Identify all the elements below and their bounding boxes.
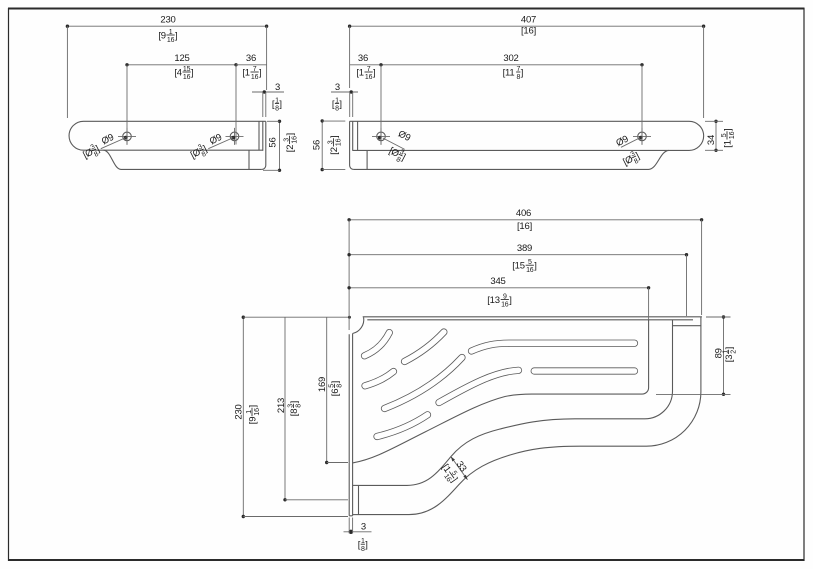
plan view: front tube left end cap xyxy=(358,485,360,514)
svg-text:16: 16 xyxy=(254,408,261,416)
plan view: shelf plate edge xyxy=(353,320,649,463)
svg-text:]: ] xyxy=(330,381,341,383)
left view: dimension 36 xyxy=(236,53,267,81)
right view: rail bar outline xyxy=(350,121,704,150)
plan view: dimension 213 xyxy=(276,317,348,501)
plan view: dimension 3 (plate thickness) xyxy=(344,518,372,554)
svg-text:3: 3 xyxy=(335,82,340,93)
svg-text:]: ] xyxy=(259,67,261,78)
left view: hole1 leader xyxy=(101,138,126,149)
svg-text:230: 230 xyxy=(160,15,175,26)
svg-text:]: ] xyxy=(534,261,536,272)
svg-text:]: ] xyxy=(722,129,733,131)
svg-text:16: 16 xyxy=(526,267,534,274)
svg-text:[1: [1 xyxy=(242,67,250,78)
plan view: slot 3 (long top) xyxy=(472,343,635,351)
plan view: slot 6 (banana C) xyxy=(439,370,519,402)
right view: hole 1 xyxy=(372,128,390,145)
plan view: dimension 230 xyxy=(234,316,349,519)
plan view: dimension 389 xyxy=(347,243,688,316)
svg-text:3: 3 xyxy=(361,522,366,533)
svg-text:407: 407 xyxy=(521,15,536,26)
plan view: dimension 345 xyxy=(347,276,650,320)
svg-text:[13: [13 xyxy=(487,295,500,306)
plan view: slot 7 (straight right) xyxy=(534,367,634,374)
svg-text:[2: [2 xyxy=(329,147,340,155)
plan view: dimension 89 xyxy=(656,315,738,396)
right view: hole2 leader xyxy=(621,138,640,148)
svg-text:[9: [9 xyxy=(247,417,258,425)
plan view: dimension 169 xyxy=(317,317,348,464)
svg-text:16: 16 xyxy=(167,37,175,44)
svg-text:[16]: [16] xyxy=(517,221,532,232)
svg-text:]: ] xyxy=(724,347,735,349)
svg-text:]: ] xyxy=(509,295,511,306)
left view: dimension 3 (plate) xyxy=(252,82,284,117)
svg-text:36: 36 xyxy=(246,53,256,64)
svg-text:389: 389 xyxy=(517,243,532,254)
plan view: slot 8 (lower left banana) xyxy=(377,415,428,437)
svg-text:3: 3 xyxy=(275,82,280,93)
left view: hole 2 xyxy=(226,128,244,145)
plan view: slot 1 (corner banana) xyxy=(365,333,390,356)
svg-text:125: 125 xyxy=(174,53,189,64)
plan view: slot 2 xyxy=(405,332,444,362)
svg-text:56: 56 xyxy=(311,140,322,150)
plan view: back edge inner xyxy=(367,319,693,321)
right view: dimension 34 xyxy=(705,120,736,152)
plan view: left plate bottom cap xyxy=(349,515,352,517)
right view: dimension 302 xyxy=(379,53,643,145)
svg-text:]: ] xyxy=(365,540,367,551)
svg-text:[3: [3 xyxy=(724,355,735,363)
left view: dimension 125 xyxy=(125,53,237,145)
right view: shelf lip xyxy=(354,150,669,169)
svg-text:]: ] xyxy=(329,136,340,138)
plan view: back edge outer xyxy=(363,316,702,318)
plan view: corner notch arc xyxy=(353,317,364,333)
svg-text:406: 406 xyxy=(516,208,531,219)
svg-text:[8: [8 xyxy=(289,409,300,417)
svg-text:16: 16 xyxy=(336,138,343,146)
left view: hole2 leader xyxy=(208,138,233,149)
svg-text:]: ] xyxy=(279,99,281,110)
svg-text:[1: [1 xyxy=(722,140,733,148)
svg-text:]: ] xyxy=(521,67,523,78)
left view: hole 1 xyxy=(118,128,136,145)
svg-text:34: 34 xyxy=(706,135,717,145)
right view: hole 2 xyxy=(633,128,651,145)
svg-text:16: 16 xyxy=(501,302,509,309)
svg-text:[6: [6 xyxy=(330,389,341,397)
svg-text:16: 16 xyxy=(292,136,299,144)
svg-text:16: 16 xyxy=(365,74,373,81)
svg-text:213: 213 xyxy=(276,398,287,413)
svg-text:[4: [4 xyxy=(174,67,182,78)
plan view: dimension 33 (tube width) xyxy=(437,457,468,486)
svg-text:]: ] xyxy=(339,99,341,110)
svg-text:16: 16 xyxy=(183,74,191,81)
svg-text:]: ] xyxy=(289,401,300,403)
svg-text:]: ] xyxy=(191,67,193,78)
svg-text:[2: [2 xyxy=(285,145,296,153)
plan view: slot 4 xyxy=(365,372,394,386)
right view: dimension 56 xyxy=(311,119,345,171)
svg-text:16: 16 xyxy=(251,74,259,81)
svg-text:[9: [9 xyxy=(158,30,166,41)
plan view: front tube right end cap xyxy=(673,325,702,327)
left view: dimension 56 xyxy=(263,120,299,172)
svg-text:169: 169 xyxy=(317,377,328,392)
svg-text:56: 56 xyxy=(268,137,279,147)
left view: wall plate edge xyxy=(262,121,266,169)
plan view: tube left stub lines xyxy=(353,485,359,514)
svg-text:[16]: [16] xyxy=(521,26,536,37)
svg-text:[15: [15 xyxy=(512,261,525,272)
plan view: front tube outer edge xyxy=(359,317,701,515)
plan view: front tube inner edge xyxy=(359,320,673,486)
svg-text:]: ] xyxy=(285,133,296,135)
svg-text:345: 345 xyxy=(490,276,505,287)
svg-text:230: 230 xyxy=(234,404,245,419)
svg-text:]: ] xyxy=(175,30,177,41)
svg-text:36: 36 xyxy=(358,53,368,64)
svg-text:302: 302 xyxy=(503,53,518,64)
right view: dimension 36 xyxy=(350,53,381,81)
plan view: dimension 406 xyxy=(347,208,703,330)
left view: rail bar outline xyxy=(69,121,266,150)
right view: dimension 407 xyxy=(348,15,705,119)
plan view: left edge outer xyxy=(348,334,350,516)
right view: dimension 3 (plate) xyxy=(331,82,358,117)
right view: wall plate edge xyxy=(350,121,354,169)
svg-text:]: ] xyxy=(247,405,258,407)
svg-text:16: 16 xyxy=(729,131,736,139)
svg-text:[1: [1 xyxy=(356,67,364,78)
plan view: left edge inner xyxy=(352,334,354,516)
plan view: slot 5 (long diagonal) xyxy=(385,358,463,409)
svg-text:]: ] xyxy=(373,67,375,78)
right view: hole1 leader xyxy=(383,138,405,149)
left view: dimension 230 xyxy=(66,15,269,119)
left view: shelf lip xyxy=(104,150,262,169)
svg-text:[11: [11 xyxy=(503,67,515,78)
